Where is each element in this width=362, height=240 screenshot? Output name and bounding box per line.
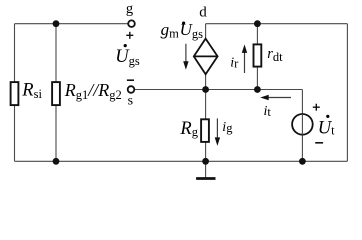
resistor Rg [201, 119, 209, 142]
svg-text:d: d [199, 5, 207, 21]
svg-text:ir: ir [230, 55, 239, 70]
wire Rg1//Rg2 branch [55, 24, 57, 162]
resistor rdt [254, 44, 262, 66]
svg-text:g: g [126, 1, 133, 17]
arrow ig (down) [215, 118, 220, 145]
label + (Ut) [313, 104, 320, 111]
node dot rdt mid [254, 86, 261, 93]
svg-text:s: s [128, 94, 133, 109]
node dot Rg/diamond mid [202, 86, 209, 93]
wire left rail [14, 24, 16, 162]
svg-text:it: it [264, 104, 272, 119]
wire top-right rail [206, 23, 348, 25]
dependent current source U1 (diamond) [194, 39, 218, 75]
wire dependent-source stub [205, 24, 207, 90]
terminal g [128, 20, 135, 27]
label + (gs port) [126, 32, 133, 39]
terminal s [128, 86, 135, 93]
ground [196, 177, 215, 180]
voltage source Ut (circle) [292, 114, 313, 135]
node dot Rg1 top [53, 20, 60, 27]
arrow ir (up) [242, 44, 247, 73]
wire bottom rail [15, 160, 348, 162]
node dot Ut bottom [299, 158, 306, 165]
wire Rg branch [205, 90, 207, 162]
node dot rdt top [254, 20, 261, 27]
node dot Rg1 bottom [53, 158, 60, 165]
wire Ut branch [301, 90, 303, 162]
svg-text:ig: ig [222, 120, 233, 135]
wire top-left rail [15, 23, 129, 25]
wire ground stub [205, 161, 207, 177]
resistor Rsi [11, 82, 19, 105]
wire rdt branch [256, 24, 258, 90]
wire middle rail (s to Ut corner) [134, 89, 302, 91]
arrow it (left) [260, 95, 291, 100]
arrow gm source current (down) [183, 44, 188, 70]
wire right rail [346, 24, 348, 162]
node dot ground [202, 158, 209, 165]
label - (gs port) [127, 79, 134, 81]
resistor Rg1//Rg2 [52, 82, 60, 105]
label - (Ut) [315, 142, 323, 144]
